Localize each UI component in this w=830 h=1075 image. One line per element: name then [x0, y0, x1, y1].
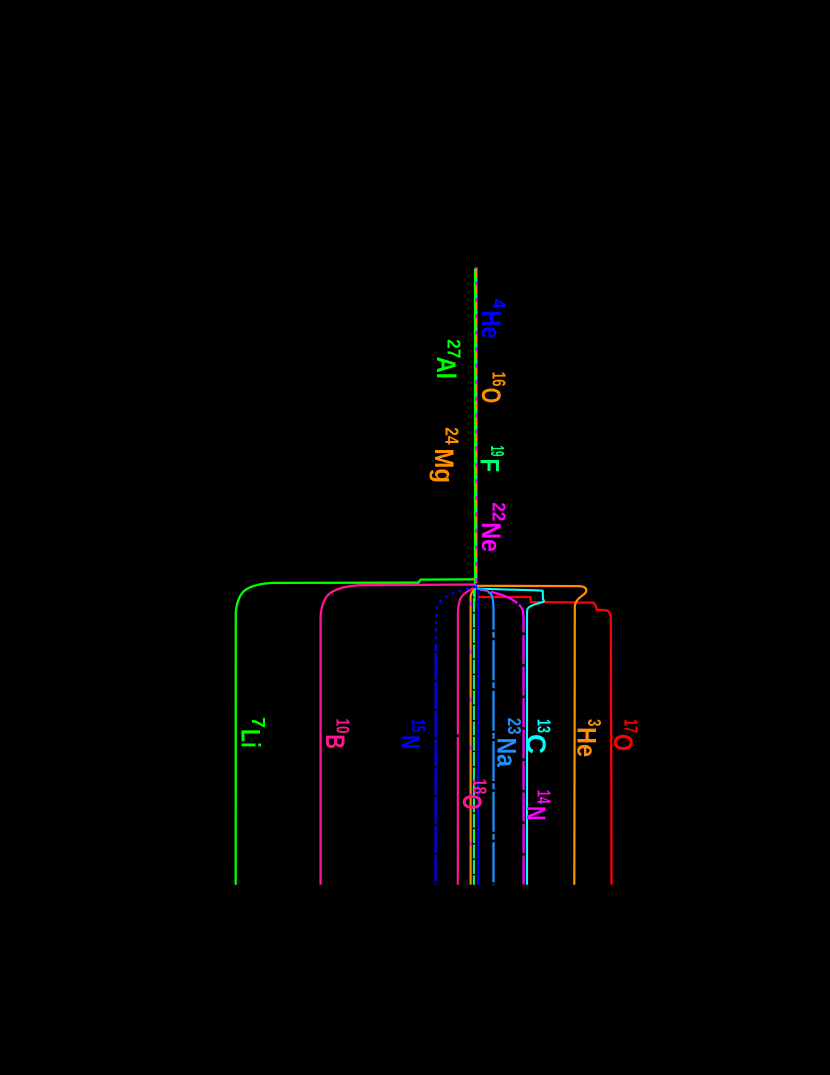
- curve 27Al (solid green plateau): [474, 269, 476, 602]
- svg-text:13: 13: [534, 719, 554, 733]
- svg-text:4: 4: [489, 299, 509, 309]
- svg-text:O: O: [457, 794, 487, 809]
- svg-text:N: N: [521, 806, 551, 821]
- label 7Li: [236, 717, 269, 748]
- svg-text:O: O: [608, 734, 638, 751]
- label 27Al: [431, 339, 464, 379]
- svg-text:15: 15: [408, 719, 428, 733]
- curve 16O / 24Mg (orange plateau with small step down): [471, 267, 477, 885]
- label 10B: [320, 719, 353, 750]
- svg-text:F: F: [475, 459, 505, 473]
- curve 10B (deep pink, large drop): [321, 585, 476, 885]
- curve 22Ne (magenta sparse dashes below knee): [471, 583, 477, 885]
- svg-text:23: 23: [504, 718, 524, 735]
- curve 3He (orange, rise with overshoot): [477, 586, 586, 885]
- svg-text:Ne: Ne: [476, 522, 506, 552]
- curve 19F (spring green dashes on plateau): [475, 267, 477, 583]
- curve 15N (blue dotted arc): [436, 587, 476, 646]
- svg-text:He: He: [476, 310, 506, 338]
- svg-text:16: 16: [489, 372, 509, 387]
- svg-text:B: B: [320, 734, 350, 749]
- label 15N: [396, 719, 429, 749]
- label 24Mg: [429, 427, 462, 483]
- svg-text:7: 7: [248, 717, 268, 728]
- curve 13C (cyan, overshoot then settle): [478, 589, 544, 885]
- curve 19F (below knee, dashed mint line): [474, 583, 476, 885]
- svg-text:Mg: Mg: [429, 448, 459, 483]
- svg-text:Li: Li: [236, 729, 266, 748]
- svg-text:17: 17: [621, 719, 641, 733]
- svg-text:Al: Al: [431, 357, 461, 379]
- curve 7Li (green, largest drop): [236, 579, 475, 885]
- label 14N: [521, 790, 554, 821]
- label 18O: [457, 779, 490, 810]
- label 17O: [608, 719, 641, 751]
- svg-text:14: 14: [534, 790, 554, 804]
- svg-text:Na: Na: [492, 738, 522, 768]
- svg-text:19: 19: [487, 446, 507, 457]
- svg-text:He: He: [572, 727, 602, 757]
- svg-text:27: 27: [443, 339, 463, 358]
- curve 4He (blue, slight rise after knee): [477, 583, 478, 885]
- svg-text:22: 22: [489, 502, 509, 521]
- curve 14N (magenta dashed, rise): [479, 589, 524, 885]
- svg-text:C: C: [521, 734, 551, 754]
- label 13C: [521, 719, 554, 754]
- label 3He: [572, 719, 605, 757]
- label 16O: [476, 372, 509, 404]
- curve 22Ne (magenta dashed along plateau): [475, 267, 477, 583]
- svg-text:18: 18: [470, 779, 490, 795]
- svg-text:10: 10: [333, 719, 353, 734]
- svg-text:3: 3: [584, 719, 604, 727]
- label 19F: [475, 446, 508, 473]
- label 4He: [476, 299, 509, 339]
- curve 17O (red, large rise): [478, 597, 612, 885]
- curve 18O (deep pink, slight drop): [458, 587, 475, 885]
- svg-text:O: O: [476, 388, 506, 404]
- label 22Ne: [476, 502, 509, 552]
- svg-text:N: N: [396, 735, 426, 749]
- curve 23Na (dodger blue dash-dot, slight rise): [479, 588, 494, 885]
- svg-text:24: 24: [442, 427, 462, 444]
- curve 15N (blue long-dashed flat tail): [434, 645, 436, 885]
- label 23Na: [492, 718, 524, 768]
